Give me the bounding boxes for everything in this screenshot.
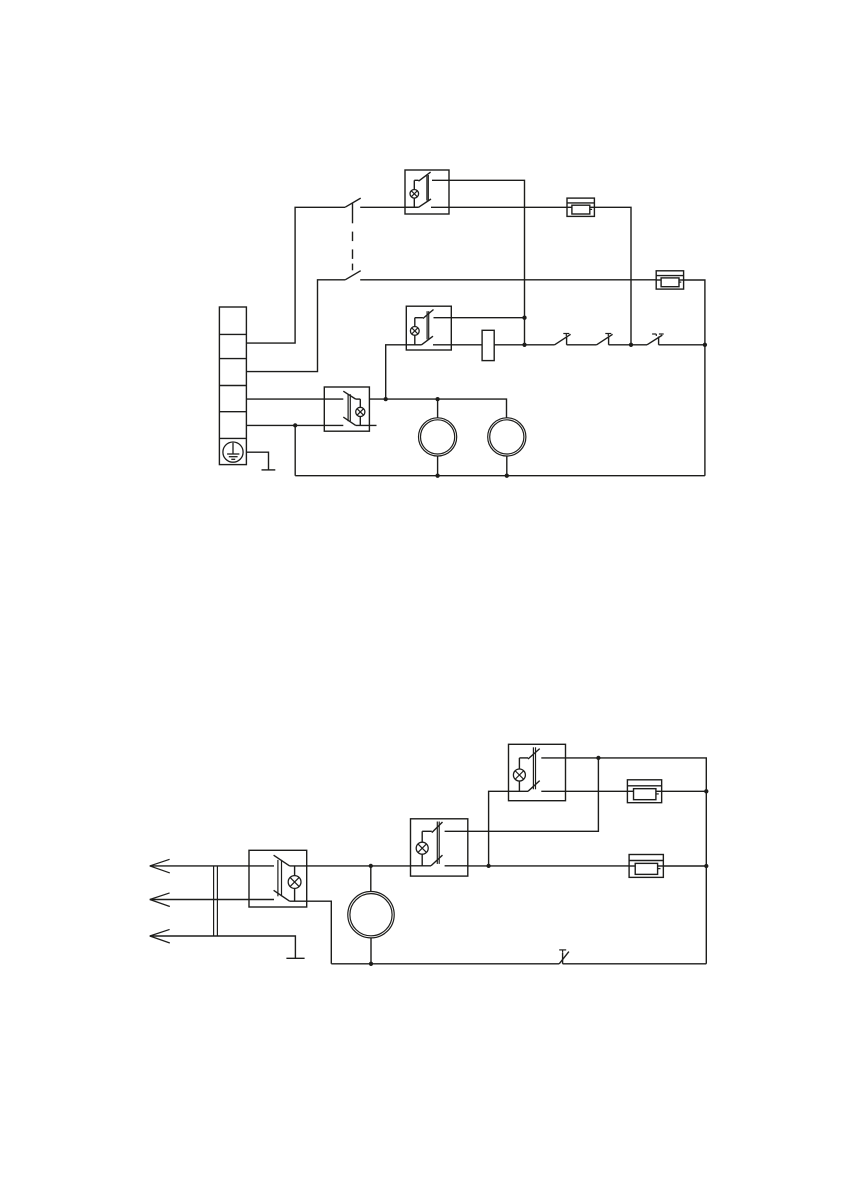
terminal block X1 [219,307,246,465]
motor M3 [348,866,394,964]
capacitor C1 (suppressor) [482,330,494,360]
junction [486,864,490,868]
wire L1 to node A [594,207,631,344]
illuminated switch S4 (lamp + contacts) [324,387,376,431]
wire TH2 to TH3 [609,344,647,346]
wire S7 to lamp L3 [566,790,628,792]
junction [522,343,526,347]
thermal contact TH2 [597,334,613,345]
switch S1 pole a [345,198,361,207]
junction [703,343,707,347]
wire L3 to right rail [662,790,707,792]
wire S6 to S7 link [468,758,599,831]
mechanical link (dashed) [352,203,354,270]
wire N-in to switch S1b [246,280,345,372]
wire L2 to right rail [683,280,705,476]
switch S1 pole b [345,271,361,280]
motor M1 [419,418,457,476]
junction [704,864,708,868]
junction [369,864,373,868]
junction [522,316,526,320]
junction [505,474,509,478]
wire TH1 to TH2 [567,344,597,346]
supply arrow L [150,859,170,873]
wire S6 to lamp L4 [468,865,629,867]
wire C1 to contacts [494,344,554,346]
wire PE to ground [150,936,296,958]
lamp unit L4 [629,855,663,878]
supply cord marker [214,866,218,936]
illuminated switch S7 (lamp + contacts) [509,744,566,800]
chassis ground [262,469,276,471]
thermal contact TH4 [559,950,569,964]
motor M2 [488,418,526,476]
wire motor M1 stub [437,399,439,418]
wire TH4 to right rail [563,963,707,965]
junction [629,343,633,347]
wire L-in to switch S1a [246,207,345,343]
thermal contact TH3 [647,334,664,345]
illuminated switch S6 (lamp + contacts) [411,819,468,876]
junction [435,474,439,478]
lamp unit L1 [567,198,594,216]
wire S3 to capacitor C1 [451,344,482,346]
wire node to bottom rail [294,425,296,475]
wire S4 to motors [369,399,506,418]
wire X1 to S4 top [246,398,324,400]
wire PE branch [246,452,268,470]
junction [369,962,373,966]
wire S7 to right rail [566,758,707,964]
junction [384,397,388,401]
wire S5 to bottom rail [307,901,332,964]
supply arrow PE [150,929,170,943]
chassis ground [286,957,304,959]
lamp unit L3 [627,780,661,803]
wire S1b to lamp L2 [360,279,656,281]
wire S2 to node col1 [449,180,525,344]
illuminated switch S2 (lamp + contacts) [405,170,449,214]
junction [596,756,600,760]
supply arrow N [150,893,170,907]
wire N to switch S5 [150,899,249,901]
lamp unit L2 [656,271,683,289]
wire L to switch S5 [150,865,249,867]
bottom rail wire [331,963,559,965]
junction [704,789,708,793]
wire X1 to S4 bottom [246,424,324,426]
wire S3 to node B [386,345,407,399]
illuminated switch S5 (lamp + contacts) [249,850,307,907]
wire S3 to node col1 [451,317,524,319]
wire S1a to switch S2 [360,206,418,208]
wire L4 to right rail [663,865,706,867]
wire S2 to lamp L1 [449,206,567,208]
junction [293,423,297,427]
wire S5 to motor M3 node [307,865,411,867]
bottom rail wire [295,475,705,477]
junction [435,397,439,401]
earth terminal PE [223,442,243,462]
illuminated switch S3 (lamp + contacts) [406,306,451,350]
wire TH3 to right rail [659,344,705,346]
wire node to S7 [489,791,509,866]
thermal contact TH1 [555,334,571,345]
